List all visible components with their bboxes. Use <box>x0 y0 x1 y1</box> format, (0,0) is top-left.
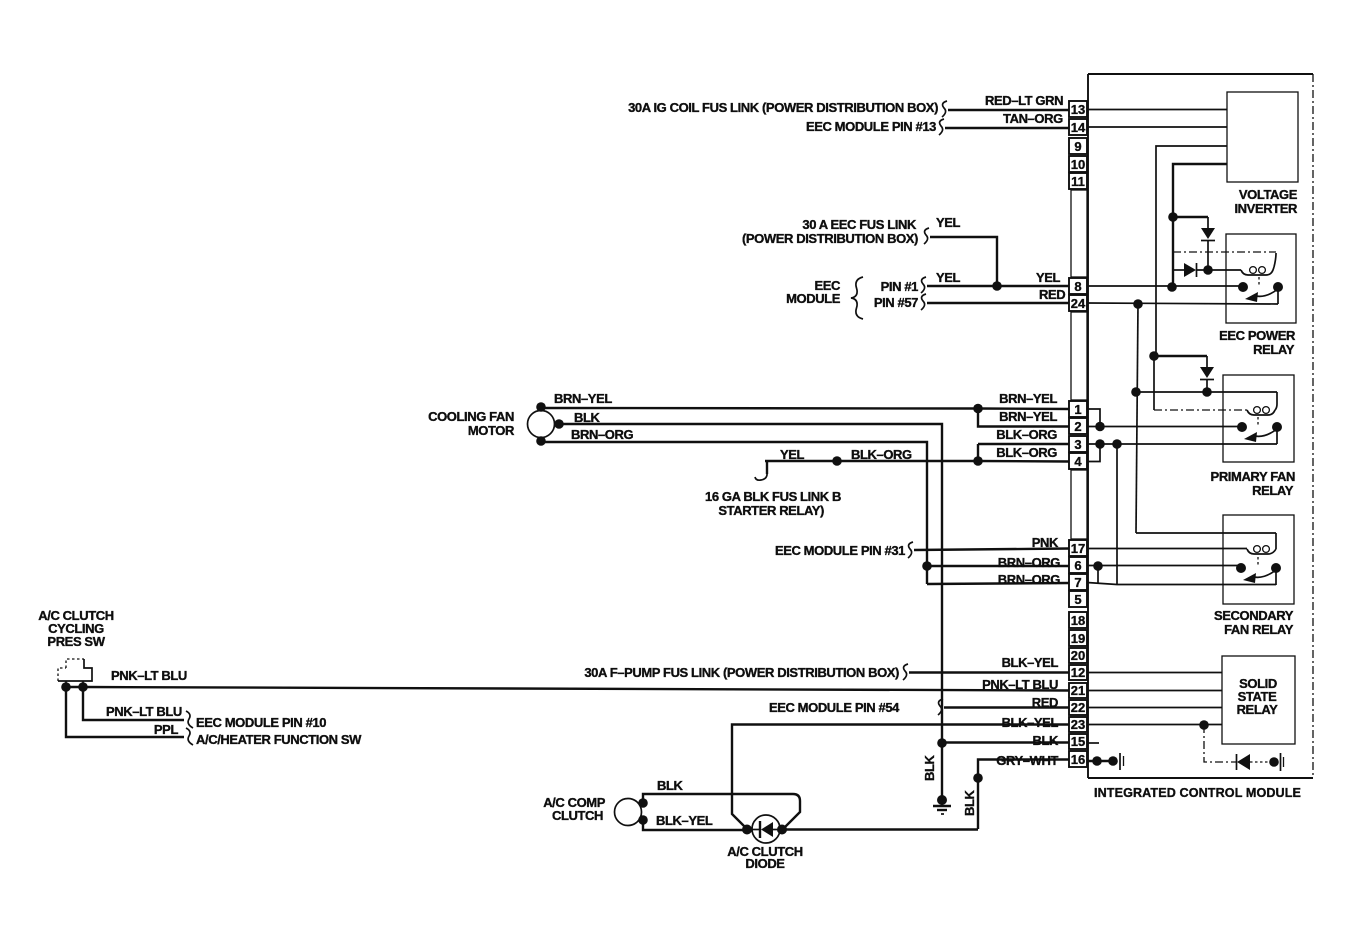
svg-text:BRN–YEL: BRN–YEL <box>999 409 1057 424</box>
pressure switch symbol <box>58 659 92 687</box>
svg-text:21: 21 <box>1071 683 1085 698</box>
svg-text:BLK: BLK <box>922 754 937 781</box>
junction dot pin24 branch <box>1133 299 1143 309</box>
connector squiggle pin31 <box>908 542 913 558</box>
svg-text:2: 2 <box>1074 419 1081 434</box>
connector squiggle pin57 <box>921 294 926 310</box>
svg-text:PNK–LT BLU: PNK–LT BLU <box>106 704 182 719</box>
svg-text:YEL: YEL <box>936 270 961 285</box>
diode A/C clutch <box>747 821 782 838</box>
svg-text:3: 3 <box>1074 437 1081 452</box>
dashed actuator link EEC <box>1258 277 1260 285</box>
svg-text:BLK: BLK <box>1032 733 1059 748</box>
relay switch primary contacts <box>1237 422 1247 432</box>
relay armature secondary <box>1254 570 1276 577</box>
junction dot EEC diode <box>1203 265 1213 275</box>
A/C comp clutch circle <box>615 799 642 826</box>
connector squiggle heater <box>186 728 193 745</box>
svg-text:1: 1 <box>1074 402 1081 417</box>
svg-text:PRIMARY FAN: PRIMARY FAN <box>1211 469 1295 484</box>
clutch terminal dots <box>638 798 648 808</box>
wire pin6 to secondary switch <box>1087 565 1241 567</box>
svg-text:15: 15 <box>1071 734 1085 749</box>
wire pin12 to solid state relay <box>1087 672 1222 674</box>
svg-text:PIN #57: PIN #57 <box>874 295 918 310</box>
svg-text:30A IG COIL FUS LINK (POWER DI: 30A IG COIL FUS LINK (POWER DISTRIBUTION… <box>628 100 938 115</box>
svg-text:A/C/HEATER FUNCTION SW: A/C/HEATER FUNCTION SW <box>196 732 362 747</box>
wire BLK-ORG pin 4 <box>978 460 1069 463</box>
svg-text:YEL: YEL <box>780 447 805 462</box>
wire pin8 to EEC relay switch <box>1087 285 1243 287</box>
connector squiggle pin54 <box>938 699 943 715</box>
pin numbers <box>1071 102 1086 767</box>
connector squiggle pin14 <box>939 119 944 135</box>
wire BLK pin 15 <box>942 741 1069 743</box>
wire dashed EEC relay top <box>1173 251 1276 253</box>
svg-text:PNK: PNK <box>1032 535 1059 550</box>
svg-text:20: 20 <box>1071 648 1085 663</box>
svg-text:RELAY: RELAY <box>1253 342 1295 357</box>
ground dot <box>937 795 947 805</box>
wire to EEC relay diode <box>1173 216 1208 218</box>
wire primary relay top <box>1136 391 1277 393</box>
diode terminal dots <box>742 825 752 835</box>
svg-text:RED: RED <box>1039 287 1065 302</box>
svg-text:23: 23 <box>1071 717 1085 732</box>
wire RED to pin 22 <box>944 706 1069 708</box>
svg-text:EEC POWER: EEC POWER <box>1219 328 1296 343</box>
wire BRN-YEL motor to pin 1 <box>541 408 1069 409</box>
coil secondary fan relay <box>1247 546 1276 554</box>
wire pin17 to secondary coil <box>1087 548 1247 550</box>
wire pin14 to voltage inverter <box>1087 126 1227 128</box>
connector pin column boxes <box>1069 101 1087 767</box>
wire vertical BLK-ORG branch <box>1116 444 1118 585</box>
terminal bar module diode <box>1280 753 1282 771</box>
connector squiggle fuse link B <box>766 461 768 474</box>
dashed actuator link secondary <box>1257 557 1259 566</box>
wire PNK to pin 17 <box>914 549 1069 551</box>
wire pin2 to primary switch <box>1087 426 1242 428</box>
wire pin24 to EEC relay contact <box>1087 287 1278 304</box>
svg-text:8: 8 <box>1074 279 1081 294</box>
svg-text:EEC MODULE PIN #10: EEC MODULE PIN #10 <box>196 715 326 730</box>
connector squiggle fpump <box>903 664 908 680</box>
junction dot node B1 <box>1168 212 1178 222</box>
junction dot BLK pin15 <box>937 738 947 748</box>
relay armature EEC <box>1256 289 1278 296</box>
svg-text:BRN–ORG: BRN–ORG <box>998 572 1060 587</box>
motor terminal dots <box>536 402 546 412</box>
svg-text:7: 7 <box>1074 575 1081 590</box>
svg-text:PNK–LT BLU: PNK–LT BLU <box>982 677 1058 692</box>
junction dot pin4 riser <box>1095 439 1105 449</box>
svg-text:CLUTCH: CLUTCH <box>552 808 603 823</box>
wire fus link B to pin 4 <box>765 460 978 462</box>
wire BLK-ORG pin 3 <box>978 443 1069 445</box>
EEC power relay box <box>1226 234 1296 323</box>
diode module internal <box>1237 754 1272 770</box>
svg-text:PPL: PPL <box>154 722 179 737</box>
ground symbol <box>933 800 951 814</box>
wire primary coil feed <box>1153 356 1155 410</box>
wire pin6-7 jog <box>1097 566 1099 584</box>
svg-text:FAN RELAY: FAN RELAY <box>1224 622 1294 637</box>
wire pin4 jog <box>1087 444 1100 462</box>
svg-text:EEC MODULE PIN #13: EEC MODULE PIN #13 <box>806 119 936 134</box>
svg-text:GRY–WHT: GRY–WHT <box>996 753 1058 768</box>
relay switch secondary contacts <box>1236 563 1246 573</box>
wire BLK-YEL pin 23 left <box>732 725 1069 829</box>
wire BLK-YEL clutch bottom <box>643 820 747 830</box>
wire riser pin3 <box>977 444 979 461</box>
wire BRN-ORG to pin 6 <box>927 565 1069 567</box>
wire vertical feed A <box>1156 146 1227 356</box>
diode EEC relay clamp <box>1201 217 1215 270</box>
secondary fan relay box <box>1223 515 1294 604</box>
wire YEL from fus link <box>930 237 997 286</box>
wire pin7 to secondary contact <box>1087 568 1276 585</box>
svg-text:MOTOR: MOTOR <box>468 423 515 438</box>
svg-text:RELAY: RELAY <box>1252 483 1294 498</box>
svg-text:9: 9 <box>1074 139 1081 154</box>
wire PNK-LT BLU long to pin 21 <box>66 687 1069 691</box>
wire pin3 line to primary contact <box>1087 427 1277 444</box>
svg-text:BLK–YEL: BLK–YEL <box>656 813 713 828</box>
svg-text:13: 13 <box>1071 102 1085 117</box>
svg-text:RED: RED <box>1032 695 1058 710</box>
svg-text:YEL: YEL <box>1036 270 1061 285</box>
junction dot primary diode bottom <box>1202 387 1212 397</box>
svg-text:19: 19 <box>1071 631 1085 646</box>
wire GRY-WHT pin 16 <box>978 760 1069 830</box>
svg-text:BRN–ORG: BRN–ORG <box>998 555 1060 570</box>
svg-text:18: 18 <box>1071 613 1085 628</box>
coil primary fan relay <box>1247 392 1277 415</box>
wire branch to pin 2 <box>978 409 1069 427</box>
switch terminal dots <box>61 682 71 692</box>
wire pin21 to solid state relay <box>1087 690 1222 692</box>
wire BLK-YEL to pin 12 <box>909 671 1069 673</box>
svg-text:DIODE: DIODE <box>745 856 785 871</box>
label SOLID STATE RELAY <box>1237 676 1279 717</box>
wire BLK motor long vertical <box>559 424 942 800</box>
junction dot pin4 <box>973 456 983 466</box>
wire RED to pin 24 <box>927 302 1069 304</box>
svg-text:VOLTAGE: VOLTAGE <box>1239 187 1298 202</box>
wire vertical RED branch <box>1136 304 1138 533</box>
svg-text:BLK–YEL: BLK–YEL <box>1002 655 1059 670</box>
svg-text:EEC MODULE PIN #31: EEC MODULE PIN #31 <box>775 543 905 558</box>
wire YEL to pin 8 <box>927 285 1069 287</box>
wire pin22 to solid state relay <box>1087 707 1222 709</box>
wire TAN-ORG to pin 14 <box>945 127 1069 129</box>
junction dot pin3 branch <box>1112 439 1122 449</box>
svg-text:12: 12 <box>1071 665 1085 680</box>
brace <box>851 277 863 319</box>
wire pin1 jog <box>1087 409 1100 427</box>
splice dot BLK-ORG <box>832 456 842 466</box>
svg-text:PRES SW: PRES SW <box>47 634 105 649</box>
wire pin16 internal capacitor <box>1087 760 1114 762</box>
svg-text:BRN–YEL: BRN–YEL <box>554 391 612 406</box>
svg-text:24: 24 <box>1071 296 1086 311</box>
junction dot BRN-YEL <box>973 404 983 414</box>
svg-text:BLK: BLK <box>657 778 684 793</box>
splice dot GRY-WHT <box>973 773 983 783</box>
junction dot pin8 feed <box>1167 282 1177 292</box>
svg-text:6: 6 <box>1074 558 1081 573</box>
wire PNK-LT BLU to EEC pin10 <box>83 687 184 720</box>
wire BLK clutch top <box>643 794 800 828</box>
svg-text:BLK: BLK <box>962 789 977 816</box>
svg-text:4: 4 <box>1074 454 1082 469</box>
svg-text:STARTER RELAY): STARTER RELAY) <box>718 503 824 518</box>
solid state relay box <box>1222 656 1295 744</box>
wire pin15 stub <box>1087 742 1099 744</box>
dashed actuator link primary <box>1257 417 1259 425</box>
connector squiggle pin13 <box>942 101 947 117</box>
svg-text:22: 22 <box>1071 700 1085 715</box>
wire pin23 to solid state relay <box>1087 724 1222 726</box>
svg-text:TAN–ORG: TAN–ORG <box>1003 111 1063 126</box>
junction dot YEL <box>992 281 1002 291</box>
svg-text:SECONDARY: SECONDARY <box>1214 608 1294 623</box>
svg-text:30 A EEC FUS LINK: 30 A EEC FUS LINK <box>802 217 917 232</box>
voltage inverter box <box>1227 92 1298 182</box>
svg-text:RELAY: RELAY <box>1237 702 1279 717</box>
svg-text:BLK: BLK <box>574 410 601 425</box>
svg-text:16: 16 <box>1071 752 1085 767</box>
wire PPL to heater sw <box>66 687 184 737</box>
wire BRN-ORG motor <box>541 442 927 584</box>
svg-text:30A F–PUMP FUS LINK (POWER DIS: 30A F–PUMP FUS LINK (POWER DISTRIBUTION … <box>584 665 899 680</box>
svg-text:5: 5 <box>1074 592 1081 607</box>
svg-text:BRN–ORG: BRN–ORG <box>571 427 633 442</box>
connector squiggle pin10 <box>186 711 193 728</box>
integrated control module outline <box>1088 74 1313 778</box>
svg-text:BLK–ORG: BLK–ORG <box>996 445 1057 460</box>
svg-text:14: 14 <box>1071 120 1086 135</box>
svg-text:PNK–LT BLU: PNK–LT BLU <box>111 668 187 683</box>
junction dot pin6 <box>1093 561 1103 571</box>
svg-text:17: 17 <box>1071 541 1085 556</box>
svg-text:BLK–YEL: BLK–YEL <box>1002 715 1059 730</box>
coil EEC power relay <box>1241 253 1276 275</box>
svg-text:INVERTER: INVERTER <box>1234 201 1298 216</box>
svg-text:COOLING FAN: COOLING FAN <box>428 409 514 424</box>
svg-text:BLK–ORG: BLK–ORG <box>851 447 912 462</box>
relay switch EEC contacts <box>1238 282 1248 292</box>
A/C clutch diode circle <box>752 815 780 843</box>
svg-text:MODULE: MODULE <box>786 291 841 306</box>
wire BRN-ORG to pin 7 <box>927 583 1069 584</box>
svg-text:INTEGRATED CONTROL MODULE: INTEGRATED CONTROL MODULE <box>1094 786 1301 800</box>
junction dot BRN-ORG pin6 <box>922 561 932 571</box>
relay armature primary <box>1255 429 1277 436</box>
svg-text:EEC MODULE PIN #54: EEC MODULE PIN #54 <box>769 700 900 715</box>
diode EEC series <box>1173 263 1241 277</box>
primary fan relay box <box>1223 375 1294 462</box>
svg-text:RED–LT GRN: RED–LT GRN <box>985 93 1063 108</box>
svg-text:10: 10 <box>1071 157 1085 172</box>
svg-text:YEL: YEL <box>936 215 961 230</box>
wire diode to pin16 riser <box>782 828 978 830</box>
svg-text:(POWER DISTRIBUTION BOX): (POWER DISTRIBUTION BOX) <box>742 231 918 246</box>
svg-text:16 GA BLK FUS LINK B: 16 GA BLK FUS LINK B <box>705 489 841 504</box>
junction dot primary top <box>1131 387 1141 397</box>
junction dot pin23 branch <box>1199 720 1209 730</box>
junction dot primary diode top <box>1149 351 1159 361</box>
connector squiggle pin1 <box>921 277 926 293</box>
svg-text:BRN–YEL: BRN–YEL <box>999 391 1057 406</box>
svg-text:11: 11 <box>1071 174 1085 189</box>
diode primary clamp <box>1200 356 1214 392</box>
wire RED-LT GRN to pin 13 <box>948 109 1069 111</box>
wire vertical feed B thick <box>1173 164 1227 287</box>
svg-text:BLK–ORG: BLK–ORG <box>996 427 1057 442</box>
wire secondary relay top <box>1136 533 1276 549</box>
junction dot module diode <box>1269 757 1279 767</box>
wire to primary diode <box>1154 355 1207 357</box>
wire pin13 to voltage inverter <box>1087 109 1227 111</box>
wire dashed to module diode <box>1204 725 1236 762</box>
cooling fan motor circle <box>528 411 555 438</box>
junction dot pin1-2 <box>1095 422 1105 432</box>
connector squiggle EEC fus link <box>924 228 929 244</box>
svg-text:PIN #1: PIN #1 <box>881 279 919 294</box>
